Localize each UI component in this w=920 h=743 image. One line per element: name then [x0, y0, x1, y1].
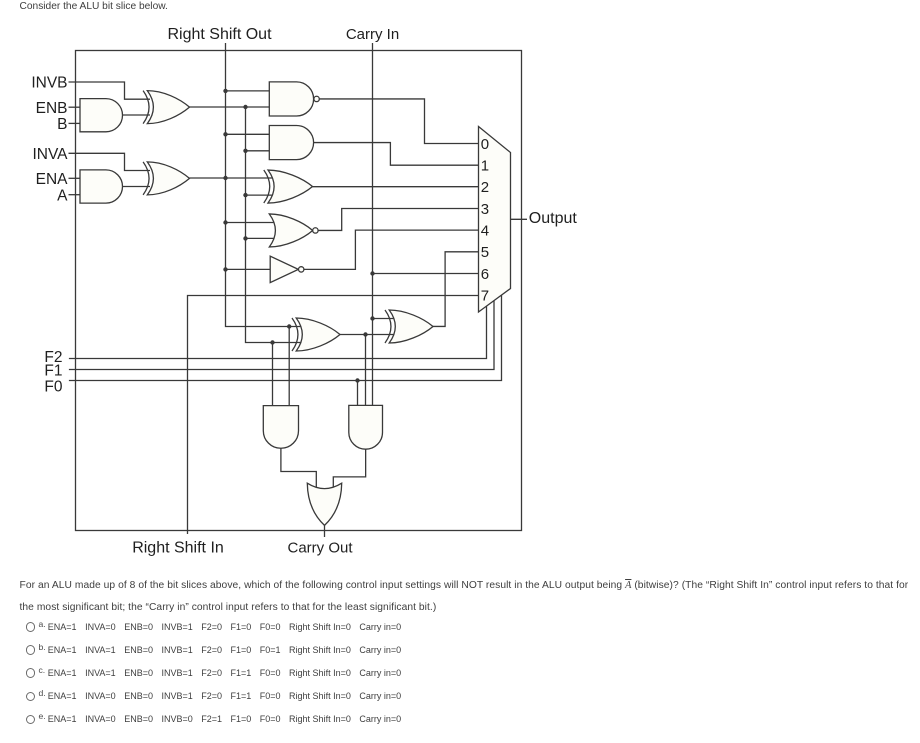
- wire ENA stub: [69, 177, 81, 179]
- wire inverter input: [226, 268, 271, 270]
- svg-text:B: B: [57, 116, 67, 133]
- wire B stub: [69, 122, 81, 124]
- svg-text:7: 7: [481, 288, 489, 305]
- svg-text:F1: F1: [44, 363, 62, 380]
- junction dots on A-result bus: [223, 89, 227, 93]
- svg-text:ENA: ENA: [36, 171, 69, 188]
- wire XOR-AB output to mux input 2: [313, 186, 479, 188]
- svg-text:INVA: INVA: [32, 146, 68, 163]
- option a: [26, 622, 35, 631]
- inverter triangle: [270, 256, 298, 282]
- wire INVB to XOR-B top input: [69, 82, 151, 99]
- wire XOR-A output to XOR-AB top input (node A-result): [190, 177, 273, 179]
- junction dot sum1 to AND-carry: [363, 332, 367, 336]
- wire AND-carry output to OR carry: [333, 449, 365, 488]
- mux trapezoid: [479, 127, 511, 313]
- wire AND2nd top input: [226, 133, 270, 135]
- nand gate body: [269, 82, 313, 116]
- option b: [26, 645, 35, 654]
- box border: [76, 51, 522, 531]
- wire Right Shift In up to mux input 7: [188, 296, 479, 535]
- svg-text:3: 3: [481, 201, 489, 218]
- svg-text:6: 6: [481, 266, 489, 283]
- junction dot F0 to AND-carry: [355, 378, 359, 382]
- option d: [26, 692, 35, 701]
- wire B-result vertical bus down to adder XOR1 bottom input: [246, 107, 302, 343]
- wire Carry In branch to mux input 6: [373, 273, 479, 275]
- wire inverter output to mux input 4: [304, 230, 479, 269]
- wire INVA to XOR-A top input: [69, 153, 151, 170]
- option e: [26, 715, 35, 724]
- svg-text:ENB: ENB: [36, 100, 68, 117]
- xor gate XOR-B back arc: [143, 91, 149, 124]
- xor gate XOR-A body: [147, 162, 189, 195]
- nor gate body: [269, 214, 312, 247]
- junction dots on Carry In bus: [370, 271, 374, 275]
- and gate AND-ab (A,B) pointing down: [263, 406, 298, 449]
- xor gate XOR-A back arc: [143, 162, 149, 195]
- top caption: [20, 1, 168, 12]
- wire OR output Carry Out: [324, 525, 326, 537]
- xor gate XOR1 body: [296, 318, 340, 351]
- wire NAND output to mux input 0: [319, 99, 478, 144]
- wire Carry In vertical bus down to AND-carry input: [372, 43, 374, 405]
- wire NAND top input: [226, 90, 270, 92]
- wire A stub: [69, 194, 81, 196]
- nand gate bubble: [314, 96, 319, 101]
- junction dots on B-result bus: [243, 105, 247, 109]
- wire XOR1 output to XOR2 bottom input: [340, 334, 397, 336]
- wire B-result branch down to AND-ab left input: [272, 343, 274, 406]
- svg-text:Carry In: Carry In: [346, 26, 399, 43]
- option c: [26, 668, 35, 677]
- wire ENB stub: [69, 106, 81, 108]
- wire F0 line to mux select: [69, 295, 502, 380]
- and gate AND-B (ENB,B): [80, 99, 123, 132]
- wire XOR-B output to NAND bottom input (node B-result): [190, 106, 270, 108]
- wire XOR1 output branch down to AND-carry: [365, 335, 367, 406]
- xor gate XOR-AB body: [268, 170, 313, 203]
- wire F2 line to mux select: [69, 306, 487, 358]
- wire AND-ab output to OR carry: [281, 448, 316, 488]
- xor gate XOR1 (adder) back arc: [292, 318, 298, 351]
- svg-text:2: 2: [481, 179, 489, 196]
- wire Carry In branch to XOR2 top input: [373, 318, 395, 320]
- xor gate XOR2 body: [389, 310, 433, 343]
- and gate AND-carry (F0, sum1, CarryIn) pointing down: [349, 405, 383, 449]
- and gate AND2nd body: [269, 126, 313, 160]
- and gate AND-A (ENA,A): [80, 170, 123, 203]
- svg-text:4: 4: [481, 223, 489, 240]
- question paragraph: [20, 580, 909, 591]
- svg-text:Right Shift Out: Right Shift Out: [167, 26, 272, 43]
- wire AND-A output to XOR-A bottom input: [123, 186, 151, 188]
- wire XOR-AB bottom input: [246, 194, 273, 196]
- svg-text:F0: F0: [44, 378, 62, 395]
- junction dot B to AND-ab: [270, 340, 274, 344]
- inverter bubble: [299, 267, 304, 272]
- wire A-result vertical bus (Right Shift Out) down to adder XOR1 top input: [226, 43, 302, 327]
- wire NOR output to mux input 3: [318, 209, 478, 231]
- xor gate XOR-AB back arc: [264, 170, 270, 203]
- svg-text:A: A: [57, 187, 68, 204]
- svg-text:Output: Output: [529, 210, 578, 227]
- or gate carry-out pointing down: [307, 483, 341, 525]
- wire AND-B output to XOR-B bottom input: [123, 114, 151, 116]
- svg-text:1: 1: [481, 158, 489, 175]
- xor gate XOR2 (adder) back arc: [385, 310, 391, 343]
- svg-text:Carry Out: Carry Out: [287, 540, 353, 557]
- wire AND2nd bottom input: [246, 150, 270, 152]
- wire AND2nd output to mux input 1: [314, 143, 479, 166]
- nor gate bubble: [313, 228, 318, 233]
- xor gate XOR-B body: [147, 91, 189, 124]
- svg-text:Right Shift In: Right Shift In: [132, 540, 224, 557]
- wire mux output: [511, 218, 528, 220]
- wire F0 branch down to AND-carry: [357, 381, 359, 406]
- junction dot A to AND-ab: [287, 324, 291, 328]
- svg-text:INVB: INVB: [31, 75, 67, 92]
- wire NOR bottom input: [246, 237, 277, 239]
- wire A-result branch down to AND-ab right input: [288, 327, 290, 406]
- svg-text:5: 5: [481, 244, 489, 261]
- wire F1 line to mux select: [69, 301, 494, 370]
- wire NOR top input: [226, 222, 277, 224]
- wire XOR2 output to mux input 5: [433, 252, 479, 327]
- svg-text:0: 0: [481, 136, 489, 153]
